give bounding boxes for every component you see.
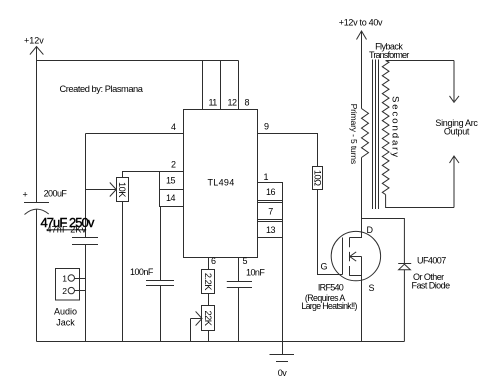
svg-text:7: 7 xyxy=(268,206,273,216)
potentiometer R 10K body xyxy=(117,178,129,202)
transformer T1 secondary winding xyxy=(382,61,389,195)
wire 10nF to 0v xyxy=(238,288,240,342)
svg-text:Secondary: Secondary xyxy=(389,96,400,159)
wire 22K bottom to 0v xyxy=(208,331,210,342)
wire pin2 to pot top xyxy=(123,172,184,178)
svg-text:15: 15 xyxy=(166,176,175,186)
svg-text:22K: 22K xyxy=(203,311,213,327)
resistor 2.2K xyxy=(202,270,215,294)
op-amp U1 TL494 body xyxy=(184,110,258,258)
audio jack J1 body xyxy=(56,269,80,301)
capacitor 200uF xyxy=(24,202,49,204)
wire diode to 0v xyxy=(403,270,405,342)
wire jack pin1 to rail2 xyxy=(75,278,86,280)
wire left rail lower xyxy=(36,210,38,342)
diode D1 UF4007 xyxy=(398,263,411,265)
output down arrow xyxy=(453,61,455,102)
Q1 channel dashes xyxy=(349,238,351,248)
svg-text:10nF: 10nF xyxy=(246,268,265,278)
wire pin 12 to +12v rail xyxy=(220,61,222,110)
pin 16 box xyxy=(258,183,283,201)
wire pin14 box down to 100nF xyxy=(160,207,162,281)
pin 13 box xyxy=(258,222,283,238)
pin 7 box xyxy=(258,203,283,220)
svg-text:Jack: Jack xyxy=(56,318,75,328)
Q1 bottom tie xyxy=(350,275,362,277)
capacitor 10nF xyxy=(227,281,252,283)
wire pin 11 to +12v rail xyxy=(202,61,204,110)
svg-text:+12v to 40v: +12v to 40v xyxy=(339,18,383,28)
node +12v arrow xyxy=(30,47,44,55)
wire right pin boxes down to 0v xyxy=(282,183,284,342)
svg-text:10Ω: 10Ω xyxy=(313,170,323,186)
pin 14 box xyxy=(160,190,184,207)
wire pin 8 to +12v rail xyxy=(238,61,240,110)
wire secondary bottom to output xyxy=(386,195,454,208)
svg-text:12: 12 xyxy=(228,98,237,108)
pin 5 wire xyxy=(238,258,240,282)
wire bottom 0v rail xyxy=(37,341,405,343)
svg-text:4: 4 xyxy=(171,122,176,132)
wire primary to drain xyxy=(361,158,363,232)
Q1 source wire to 0v xyxy=(361,257,363,342)
svg-text:UF4007: UF4007 xyxy=(417,256,446,266)
svg-text:10K: 10K xyxy=(117,182,127,198)
Q1 source body arrow xyxy=(350,256,362,258)
transformer T1 primary winding xyxy=(362,109,369,158)
Q1 gate bar xyxy=(342,238,344,275)
potentiometer 22K wiper arrow xyxy=(191,318,202,320)
wire rail2 lower xyxy=(85,245,87,342)
svg-text:Output: Output xyxy=(444,126,470,136)
svg-text:8: 8 xyxy=(245,98,250,108)
capacitor 100nF xyxy=(146,280,174,282)
svg-text:11: 11 xyxy=(209,98,218,108)
wire secondary top to output xyxy=(386,60,454,62)
svg-text:0v: 0v xyxy=(278,368,287,378)
wire 2.2K to 22K xyxy=(208,294,210,306)
wire pin4 to rail2 xyxy=(86,133,184,135)
svg-text:+: + xyxy=(23,190,28,200)
svg-text:+12v: +12v xyxy=(24,36,44,46)
svg-text:1: 1 xyxy=(62,273,67,283)
resistor 10 ohm xyxy=(313,167,323,190)
wire pin 9 to gate resistor xyxy=(258,134,318,167)
ground symbol 0v xyxy=(282,342,284,355)
svg-text:13: 13 xyxy=(266,225,275,235)
transformer T1 core xyxy=(372,60,374,210)
pin 15 box xyxy=(160,172,184,190)
svg-text:Large Heatsink!!): Large Heatsink!!) xyxy=(301,301,357,311)
svg-text:S: S xyxy=(369,283,375,293)
transistor Q1 IRF540 circle xyxy=(331,231,380,280)
wire left rail upper xyxy=(36,61,38,203)
wire top +12v rail xyxy=(37,60,239,62)
svg-text:100nF: 100nF xyxy=(130,267,154,277)
svg-text:Primary - 5 turns: Primary - 5 turns xyxy=(349,104,359,164)
svg-text:200uF: 200uF xyxy=(44,189,68,199)
svg-text:D: D xyxy=(367,225,374,235)
wire 10 ohm to gate xyxy=(318,190,343,275)
svg-text:6: 6 xyxy=(211,256,216,266)
svg-text:2: 2 xyxy=(171,160,176,170)
svg-text:2: 2 xyxy=(62,286,67,296)
wire 100nF to 0v xyxy=(160,286,162,342)
svg-text:Audio: Audio xyxy=(54,307,77,317)
wire pot bottom to 0v xyxy=(122,202,124,342)
svg-text:14: 14 xyxy=(166,193,175,203)
+12v to 40v arrow xyxy=(357,31,367,40)
svg-text:16: 16 xyxy=(266,187,275,197)
svg-text:Fast Diode: Fast Diode xyxy=(412,281,451,291)
output up arrow xyxy=(450,156,460,163)
potentiometer 22K body xyxy=(202,306,215,331)
potentiometer R 10K wiper arrow xyxy=(86,189,116,191)
svg-text:TL494: TL494 xyxy=(207,178,234,188)
svg-text:5: 5 xyxy=(243,256,248,266)
wire 22K wiper to 0v xyxy=(190,319,192,342)
svg-text:IRF540: IRF540 xyxy=(318,282,344,292)
wire drain tee to diode xyxy=(362,219,405,264)
svg-text:47nF 2Kv: 47nF 2Kv xyxy=(47,225,87,235)
svg-text:Transformer: Transformer xyxy=(369,50,409,60)
svg-text:2.2K: 2.2K xyxy=(203,273,213,291)
wire rail2 upper xyxy=(85,134,87,238)
Q1 drain inner connection xyxy=(350,232,362,238)
capacitor 47uF xyxy=(72,237,98,239)
svg-text:1: 1 xyxy=(264,172,269,182)
svg-text:9: 9 xyxy=(264,122,269,132)
wire jack pin2 to rail2 xyxy=(75,290,86,292)
pin 6 wire xyxy=(208,258,210,270)
svg-text:G: G xyxy=(321,262,328,272)
svg-text:Created by: Plasmana: Created by: Plasmana xyxy=(60,84,144,94)
